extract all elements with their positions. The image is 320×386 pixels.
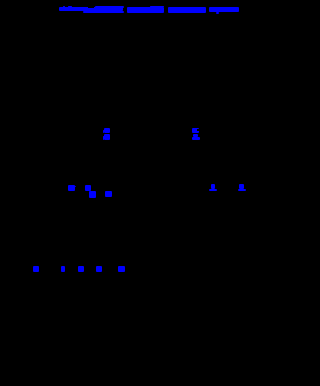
footer note word 5: [118, 266, 125, 272]
footer note word 2: [61, 266, 65, 271]
resistor R1 reference label: [104, 128, 110, 133]
resistor R2 value label: [193, 134, 198, 137]
resistor R1 value label: [104, 134, 110, 140]
title word 2: [127, 7, 164, 13]
capacitor C1 value label: [105, 191, 112, 197]
node VCC label: [85, 185, 91, 191]
title word 1: [59, 7, 124, 11]
title word 3: [168, 7, 206, 14]
pin 2 label: [239, 184, 243, 189]
footer note word 4: [96, 266, 102, 272]
footer note word 1: [33, 266, 39, 272]
capacitor C1 label: [89, 191, 96, 198]
pin 1 label: [211, 184, 215, 189]
footer note word 3: [78, 266, 84, 271]
title word 4: [209, 7, 239, 13]
resistor R2 reference label: [192, 128, 199, 133]
node VIN label: [68, 185, 75, 191]
